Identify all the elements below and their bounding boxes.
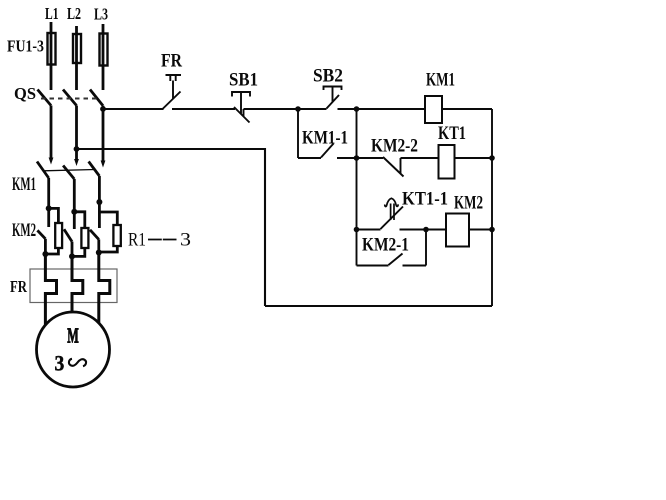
wire node A to SB2 [298, 108, 327, 110]
node junction right rail row2 [489, 155, 495, 161]
contactor KM1 linkage [44, 170, 96, 171]
svg-text:KM1: KM1 [426, 71, 455, 91]
contactor KM2 pole2 upper wire [73, 212, 76, 229]
node junction row2 left [354, 155, 360, 161]
relay FR heater pole3 [99, 253, 110, 324]
wire phase L3 vertical [102, 24, 105, 90]
coil KT1 [439, 145, 455, 179]
wire to KM2 coil [426, 229, 446, 231]
resistor R1 pole1 [55, 223, 62, 248]
svg-text:L1: L1 [45, 4, 59, 23]
wire KM2-1 right [403, 265, 427, 267]
relay FR heater pole2 [72, 256, 83, 312]
wire control top from pole3 [103, 108, 164, 110]
wire row3 left [357, 229, 381, 231]
wire R1 pole1 bottom [45, 248, 58, 254]
wire control bottom rail [265, 305, 492, 307]
wire row2 left [357, 157, 384, 159]
fuse FU1 [48, 33, 56, 65]
svg-text:QS: QS [14, 84, 36, 103]
switch QS pole 3 blade [90, 90, 103, 106]
contact KM1-1 slant [321, 144, 334, 158]
svg-text:SB2: SB2 [313, 67, 343, 87]
svg-text:KM2-2: KM2-2 [371, 137, 418, 157]
wire QS pole2 to KM1 [75, 106, 78, 160]
button SB1 right terminal tick [243, 109, 245, 117]
motor M circle [37, 312, 110, 387]
contactor KM1 pole3 blade [89, 162, 100, 177]
wire SB1 to node A [244, 108, 299, 110]
button SB1 cap [232, 92, 250, 114]
contact KT1-1 delay arrow lines [391, 204, 394, 221]
switch QS pole 1 blade [38, 90, 52, 106]
wire KM1 coil to right rail [442, 108, 492, 110]
svg-text:KM2: KM2 [12, 221, 36, 241]
svg-text:KM2-1: KM2-1 [362, 236, 409, 256]
coil KM1 [425, 96, 442, 123]
svg-text:KT1: KT1 [438, 124, 466, 144]
wire node B down rail [356, 109, 358, 266]
node junction row3 left [354, 227, 360, 233]
contact KM2-2 slant [383, 157, 404, 177]
node junction pole1 parallel bottom [42, 251, 48, 257]
relay contact FR slant [163, 92, 181, 110]
node junction pole3 parallel top [96, 199, 102, 205]
node junction pole3 parallel bottom [96, 250, 102, 256]
relay FR heater pole1 [45, 254, 56, 325]
wire QS pole1 to KM1 [50, 106, 53, 159]
contactor KM2 pole3 blade [90, 230, 99, 240]
node junction right rail row3 [489, 227, 495, 233]
wire KM2-1 up [425, 230, 427, 266]
svg-text:FR: FR [10, 277, 28, 296]
wire phase L2 vertical [75, 26, 78, 90]
wire KM1 pole2 down [73, 179, 76, 212]
contact KM2-1 slant [389, 254, 403, 266]
svg-text:R1: R1 [128, 231, 146, 251]
fuse FU2 [73, 34, 81, 63]
contactor KM1 pole1 blade [37, 162, 49, 179]
svg-text:KM2: KM2 [454, 194, 483, 214]
wire KM2 coil to right rail [469, 229, 492, 231]
node junction KM2 coil left [423, 227, 429, 233]
wire control feed y148 [77, 149, 266, 306]
svg-text:SB1: SB1 [229, 71, 258, 91]
wire phase L1 vertical [50, 22, 53, 90]
node junction pole2 parallel bottom [69, 253, 75, 259]
button SB2 slant [327, 95, 340, 109]
svg-text:KT1-1: KT1-1 [402, 190, 448, 210]
node A junction [295, 106, 301, 112]
wire KT1-1 right [400, 229, 427, 231]
svg-text:KM1-1: KM1-1 [302, 129, 348, 149]
coil KM2 [446, 214, 469, 247]
contactor KM1 pole3 arrow [101, 161, 106, 168]
resistor R1 branch pole1 wire [49, 208, 59, 223]
button SB1 slant [234, 107, 250, 123]
contactor KM2 pole1 blade [37, 230, 45, 238]
svg-text:FU1-3: FU1-3 [7, 37, 44, 56]
contactor KM1 pole1 arrow [49, 158, 54, 165]
svg-text:FR: FR [161, 52, 183, 72]
resistor R1 pole3 [113, 225, 120, 246]
wire KM2 pole2 lower [71, 242, 74, 257]
contactor KM2 pole2 blade [64, 229, 72, 241]
node junction pole1 parallel top [46, 205, 52, 211]
contactor KM2 pole3 upper wire [98, 212, 101, 228]
motor tilde symbol [69, 359, 86, 366]
contactor KM2 pole1 upper wire [47, 208, 50, 227]
wire KM1-1 right [337, 157, 357, 159]
switch QS linkage dashed [41, 98, 97, 100]
wire node B to KM1 coil [357, 108, 426, 110]
svg-text:KM1: KM1 [12, 175, 36, 195]
svg-text:L3: L3 [94, 5, 108, 24]
contact KM2-2 right bar [400, 158, 402, 174]
relay FR box [30, 269, 117, 303]
wire KM2 pole1 lower [44, 239, 47, 254]
wire FR to SB1 [172, 108, 235, 110]
wire right rail [491, 109, 493, 306]
wire KT1 to right rail [455, 157, 493, 159]
node junction pole3 control tap [100, 106, 106, 112]
relay contact FR actuator [166, 75, 182, 99]
button SB2 cap [324, 87, 342, 102]
svg-text:L2: L2 [67, 4, 81, 23]
node B junction [354, 106, 360, 112]
wire KM2-2 to KT1 [401, 157, 439, 159]
wire QS pole3 to KM1 [102, 106, 105, 161]
wire KM2-1 left [357, 265, 389, 267]
switch QS pole 2 blade [63, 90, 77, 106]
resistor R1 branch pole3 wire [99, 212, 117, 225]
resistor R1 branch pole2 wire [74, 212, 85, 228]
wire KM1-1 left [298, 157, 321, 159]
contact KT1-1 slant [381, 207, 404, 230]
wire R1 label dash [148, 239, 177, 241]
contact KT1-1 delay arrow head [385, 198, 398, 206]
contactor KM1 pole2 arrow [74, 159, 79, 166]
fuse FU3 [100, 34, 108, 66]
wire KM2 pole3 lower [97, 239, 100, 252]
svg-text:M: M [67, 324, 79, 348]
wire R1 pole2 bottom [72, 248, 85, 256]
resistor R1 pole2 [81, 228, 88, 248]
wire KM1 pole3 down [98, 176, 101, 212]
wire SB2 to node B [338, 108, 357, 110]
wire KM1 pole1 down [47, 178, 50, 208]
node junction pole2 feed tap [74, 146, 80, 152]
svg-text:3: 3 [180, 231, 191, 251]
node junction pole2 parallel top [71, 209, 77, 215]
contactor KM1 pole2 blade [63, 166, 74, 180]
wire R1 pole3 bottom [99, 246, 118, 252]
svg-text:3: 3 [55, 351, 65, 376]
wire node A down [297, 109, 299, 158]
